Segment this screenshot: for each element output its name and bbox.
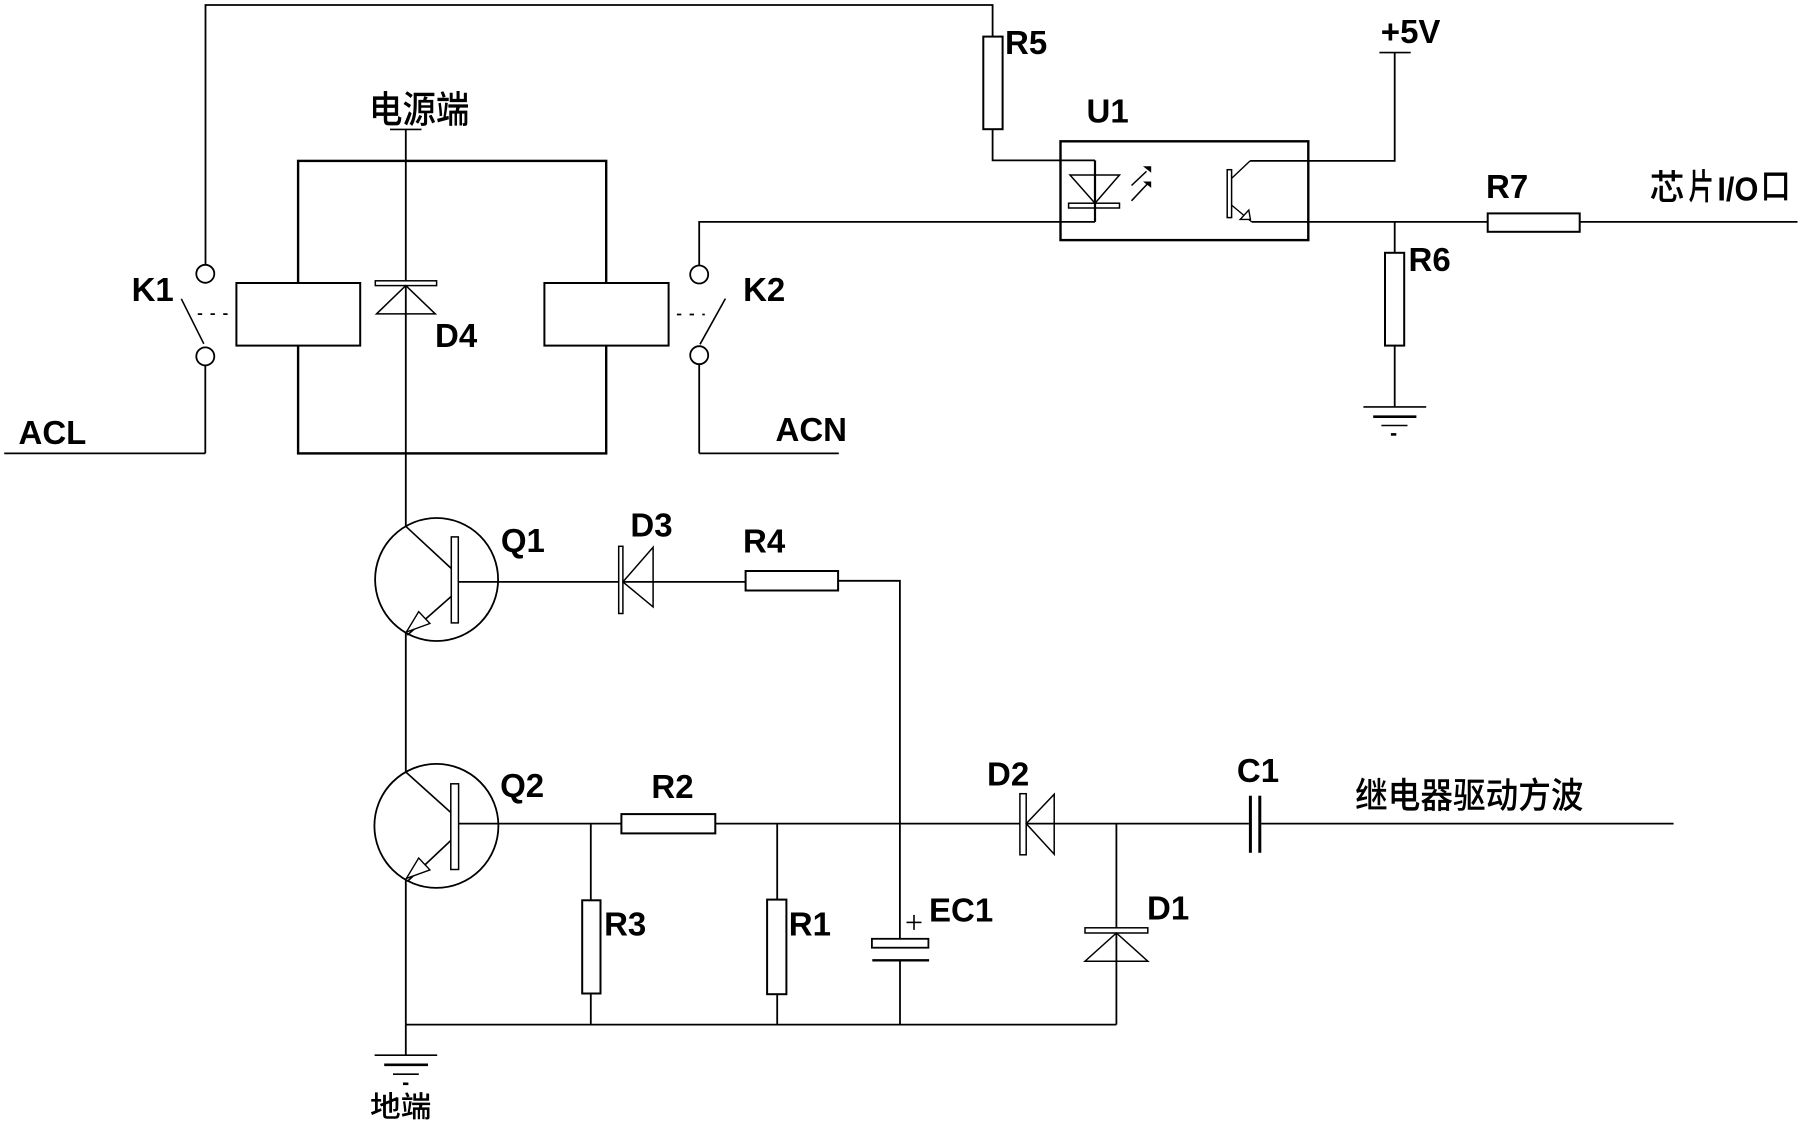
wire R1 to rail [776,994,778,1024]
svg-text:Q1: Q1 [501,522,545,559]
resistor R2 [621,814,715,833]
svg-text:ACL: ACL [19,414,87,451]
wire Q1 base to D3 [458,581,746,583]
wire Q2 to bottom rail [405,880,407,1025]
wire U1 collector to +5V [1250,53,1395,161]
wire R5 to U1 [993,129,1095,160]
switch K1 [196,265,214,283]
wire power rail vertical [405,129,407,526]
svg-text:EC1: EC1 [929,892,993,929]
wire to R6 [1394,222,1396,253]
resistor R4 [746,571,839,591]
wire K2 to U1 [699,222,1095,266]
terminal 地端 [371,1092,430,1119]
LED of U1 [1094,160,1096,222]
capacitor C1 [1249,796,1252,853]
svg-text:R3: R3 [604,906,646,943]
svg-text:D3: D3 [630,507,672,544]
resistor R1 [767,900,786,995]
svg-text:K1: K1 [132,271,174,308]
wire K2 to ACN [698,364,700,453]
svg-text:R4: R4 [743,523,786,560]
wire to R1 [776,824,778,900]
wire relay drive line [459,823,1249,825]
transistor Q2 [374,764,498,888]
wire top loop [206,5,993,265]
capacitor EC1 [872,939,929,948]
svg-text:R7: R7 [1486,168,1528,205]
diode D2 [1020,794,1026,855]
svg-text:Q2: Q2 [500,767,544,804]
phototransistor of U1 [1227,170,1231,218]
optocoupler U1 [1061,141,1309,240]
svg-text:D4: D4 [435,317,478,354]
svg-text:U1: U1 [1087,93,1129,130]
wire to R3 [590,824,592,901]
svg-text:ACN: ACN [776,411,848,448]
resistor R7 [1488,213,1580,231]
svg-text:I/O: I/O [1717,171,1758,208]
power +5V [1379,52,1410,54]
svg-text:D2: D2 [987,756,1029,793]
wire bottom rail [406,1024,1117,1026]
diode D3 [619,546,623,613]
wire to D1 [1115,824,1117,1025]
label 芯片I/O口 [1651,170,1683,202]
wire K1 to ACL [204,365,206,453]
svg-text:R5: R5 [1005,24,1047,61]
wire U1 emitter to R7 [1252,221,1488,223]
switch K2 [690,266,708,284]
label 继电器驱动方波 [1356,777,1583,811]
wire R7 to chip I/O [1580,221,1798,223]
wire Q1 to Q2 [405,633,407,772]
diode D4 [375,281,436,286]
resistor R5 [983,37,1002,130]
diode D1 [1085,928,1148,933]
ground (bottom) [405,1025,407,1056]
svg-text:C1: C1 [1237,752,1279,789]
svg-text:R6: R6 [1409,241,1451,278]
ground (under R6) [1363,406,1426,408]
relay outer box [298,161,606,454]
transistor Q1 [375,518,498,641]
svg-text:R1: R1 [789,906,831,943]
power terminal 电源端 [390,128,422,130]
wire R4 to EC1 [838,581,900,939]
wire R3 to rail [590,994,592,1025]
svg-text:+5V: +5V [1381,13,1441,50]
svg-text:R2: R2 [651,768,693,805]
light emission arrows [1132,171,1147,185]
terminal ACN [699,452,839,454]
resistor R3 [582,900,600,993]
svg-text:D1: D1 [1147,890,1189,927]
relay coil K1 [236,283,360,346]
terminal ACL [4,452,205,454]
wire R6 to ground [1394,346,1396,407]
svg-text:K2: K2 [743,271,785,308]
relay coil K2 [544,283,668,346]
resistor R6 [1385,253,1404,346]
